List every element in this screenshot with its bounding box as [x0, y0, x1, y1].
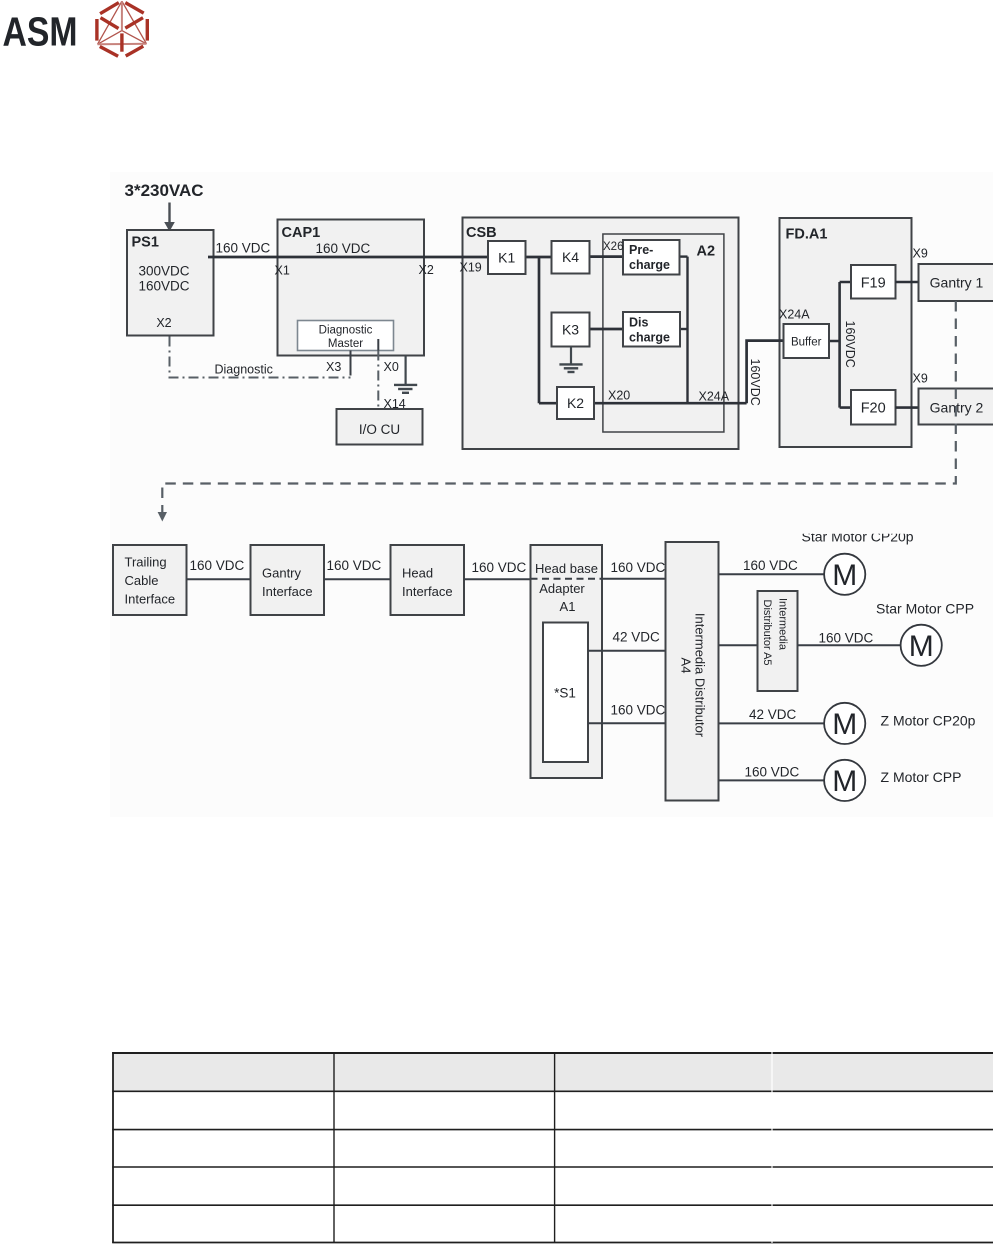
motor M4 Z Motor CPP [824, 760, 865, 801]
box Intermedia Distributor A4 [666, 542, 719, 801]
table light seam column [771, 1052, 773, 1243]
svg-text:160 VDC: 160 VDC [216, 241, 271, 256]
box K4 [552, 241, 590, 274]
svg-text:K2: K2 [567, 395, 584, 411]
box F19 [851, 265, 896, 299]
svg-text:X2: X2 [419, 263, 434, 277]
svg-text:42 VDC: 42 VDC [749, 707, 797, 722]
box A2 [603, 234, 724, 432]
svg-text:X3: X3 [326, 360, 341, 374]
svg-text:K4: K4 [562, 249, 579, 265]
svg-text:Adapter: Adapter [539, 581, 585, 596]
svg-text:Head base: Head base [535, 561, 598, 576]
svg-text:Distributor A5: Distributor A5 [761, 600, 773, 666]
wire A2 vertical [686, 257, 688, 404]
svg-text:3*230VAC: 3*230VAC [125, 181, 204, 200]
wire F20 to Gantry 2 [896, 406, 919, 409]
box *S1 [543, 623, 588, 763]
svg-text:ASM: ASM [3, 9, 78, 55]
svg-text:300VDC: 300VDC [138, 264, 189, 279]
svg-text:Head: Head [402, 566, 433, 581]
svg-text:*S1: *S1 [554, 686, 576, 701]
wire dashed inside Head base [531, 578, 603, 580]
svg-text:K3: K3 [562, 322, 579, 338]
wire A5 to Star Motor CPP [798, 644, 901, 646]
svg-text:PS1: PS1 [132, 235, 159, 251]
svg-text:160 VDC: 160 VDC [743, 558, 798, 573]
svg-text:A1: A1 [560, 599, 576, 614]
box Intermedia Distributor A5 [758, 591, 798, 691]
wire X24A riser to Buffer [747, 341, 784, 404]
box Head Interface [391, 545, 465, 615]
wire diagnostic dash-dot PS1 to X3 [170, 337, 351, 378]
svg-text:Interface: Interface [402, 584, 453, 599]
ground from K3 [559, 347, 582, 373]
ground from CAP1 [394, 356, 417, 393]
svg-text:Diagnostic: Diagnostic [319, 325, 373, 337]
svg-text:160 VDC: 160 VDC [472, 560, 527, 575]
svg-text:F19: F19 [861, 276, 886, 292]
svg-text:160 VDC: 160 VDC [745, 765, 800, 780]
svg-text:Trailing: Trailing [125, 555, 167, 570]
svg-text:charge: charge [629, 258, 670, 272]
svg-text:A4: A4 [679, 658, 694, 674]
ASM hexagon logo [97, 1, 147, 56]
box CAP1 [278, 220, 425, 356]
svg-text:M: M [909, 630, 934, 663]
wire X3 stub [350, 351, 352, 376]
box Pre-charge [623, 240, 680, 275]
svg-text:FD.A1: FD.A1 [786, 227, 828, 243]
svg-text:A2: A2 [697, 244, 716, 260]
wire X0 stub inside Diagnostic Master [377, 339, 379, 351]
svg-text:I/O CU: I/O CU [359, 422, 400, 437]
svg-text:Z Motor CP20p: Z Motor CP20p [881, 713, 976, 729]
box FD.A1 [780, 218, 912, 447]
svg-text:Star Motor CPP: Star Motor CPP [876, 601, 974, 617]
svg-text:Buffer: Buffer [791, 337, 822, 349]
wire Head base to A4 [602, 578, 666, 580]
svg-text:160VDC: 160VDC [843, 321, 857, 368]
svg-text:M: M [832, 559, 857, 592]
svg-text:Master: Master [328, 338, 363, 350]
svg-text:160VDC: 160VDC [748, 359, 762, 406]
wire dashed Gantry1 to Trailing Cable Interface [162, 301, 956, 513]
svg-text:X9: X9 [913, 372, 928, 386]
wire K3 to Discharge [590, 328, 624, 331]
svg-text:charge: charge [629, 331, 670, 345]
wire Trailing to Gantry Interface [187, 578, 251, 580]
svg-text:X9: X9 [913, 247, 928, 261]
svg-text:160 VDC: 160 VDC [327, 558, 382, 573]
motor M1 Star Motor CP20p [824, 554, 865, 595]
svg-text:X24A: X24A [779, 308, 810, 322]
motor M2 Star Motor CPP [901, 625, 942, 666]
box Buffer [784, 324, 830, 358]
svg-text:Intermedia Distributor: Intermedia Distributor [693, 613, 708, 738]
box PS1 [127, 230, 214, 336]
arrowhead down to Trailing Cable Interface [158, 512, 167, 522]
svg-text:M: M [832, 765, 857, 798]
svg-text:Pre-: Pre- [629, 243, 653, 257]
box CSB [463, 218, 739, 450]
wire branch to K2 [539, 402, 557, 405]
svg-text:CAP1: CAP1 [282, 225, 321, 241]
wire A4 to A5 [719, 644, 758, 646]
svg-text:Dis: Dis [629, 316, 649, 330]
wire S1 160VDC to A4 [588, 722, 666, 724]
box K3 [552, 313, 590, 347]
svg-text:160 VDC: 160 VDC [611, 560, 666, 575]
table vertical borders [113, 1052, 555, 1243]
embedded diagram background tint [110, 172, 993, 817]
wire A4 to Star Motor CP20p [719, 573, 824, 575]
svg-text:Interface: Interface [262, 584, 313, 599]
wire Head IF to Head base [464, 578, 531, 580]
wire X0/X14 dash-dot to I/O CU [377, 351, 379, 410]
wire F19 to Gantry 1 [896, 281, 919, 284]
svg-text:160 VDC: 160 VDC [611, 703, 666, 718]
box Head base Adapter A1 [531, 545, 603, 778]
box I/O CU [337, 409, 423, 445]
box Diagnostic Master [298, 321, 394, 351]
wire A4 to Z Motor CPP [719, 779, 824, 781]
wire K1 to K4 with branch [526, 256, 552, 259]
wire vertical branch to K2 [538, 257, 541, 403]
box K1 [488, 241, 526, 274]
wire PS1 to K1 (160 VDC bus) [208, 256, 489, 259]
svg-text:160 VDC: 160 VDC [316, 241, 371, 256]
svg-text:X2: X2 [156, 316, 171, 330]
motor M3 Z Motor CP20p [824, 703, 865, 744]
svg-text:42 VDC: 42 VDC [613, 630, 661, 645]
box Gantry Interface [251, 545, 325, 615]
svg-text:X1: X1 [275, 264, 290, 278]
svg-text:X20: X20 [608, 389, 630, 403]
box F20 [851, 390, 896, 425]
wire Discharge to A2 vertical [680, 328, 688, 330]
wire S1 42VDC to A4 [588, 650, 666, 652]
wire Gantry IF to Head IF [324, 578, 391, 580]
box Gantry 2 [919, 389, 993, 425]
wire A4 to Z Motor CP20p [719, 722, 824, 724]
svg-text:K1: K1 [498, 250, 515, 266]
box Gantry 1 [919, 264, 993, 301]
svg-text:160 VDC: 160 VDC [190, 558, 245, 573]
svg-text:CSB: CSB [466, 225, 497, 241]
svg-text:X26: X26 [603, 241, 623, 253]
wire K4 to Pre-charge [590, 255, 624, 258]
svg-text:160VDC: 160VDC [138, 279, 189, 294]
svg-text:160 VDC: 160 VDC [819, 631, 874, 646]
svg-text:Gantry 1: Gantry 1 [930, 275, 984, 291]
svg-text:X19: X19 [460, 261, 482, 275]
svg-text:Intermedia: Intermedia [777, 598, 789, 651]
wire Pre-charge to A2 vertical [680, 255, 688, 257]
table header row fill [113, 1053, 993, 1091]
svg-text:X24A: X24A [699, 390, 730, 404]
table horizontal borders [112, 1053, 993, 1243]
wire K2 to X24A exit [594, 402, 747, 405]
wire Buffer to F19/F20 [829, 282, 851, 408]
box K2 [557, 387, 594, 419]
svg-text:Gantry: Gantry [262, 566, 302, 581]
svg-text:X0: X0 [384, 360, 399, 374]
svg-text:Cable: Cable [125, 573, 159, 588]
arrow into PS1 [164, 203, 175, 232]
box Trailing Cable Interface [113, 545, 187, 615]
svg-text:M: M [832, 708, 857, 741]
svg-text:Interface: Interface [125, 592, 176, 607]
box Discharge [623, 312, 680, 347]
svg-text:Z Motor CPP: Z Motor CPP [881, 769, 962, 785]
svg-text:F20: F20 [861, 401, 886, 417]
svg-text:Diagnostic: Diagnostic [215, 363, 273, 377]
